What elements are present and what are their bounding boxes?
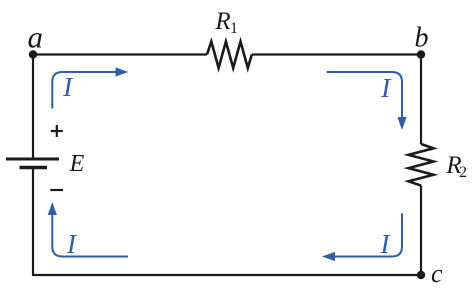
- svg-text:R: R: [214, 8, 230, 35]
- battery E long plate: [6, 158, 59, 161]
- battery minus sign: [50, 189, 63, 191]
- wire top (a to R1): [33, 53, 207, 55]
- node a dot: [29, 50, 37, 58]
- svg-text:c: c: [431, 259, 443, 288]
- wire right upper (b to R2): [420, 55, 422, 145]
- node b dot: [417, 50, 425, 58]
- wire left lower (corner to battery minus plate): [32, 168, 34, 276]
- svg-text:a: a: [28, 20, 44, 55]
- svg-text:b: b: [415, 23, 429, 54]
- current arrow top-right: [327, 72, 402, 117]
- svg-text:2: 2: [459, 164, 467, 181]
- resistor R1: [207, 42, 252, 69]
- current arrow bottom-left: [52, 215, 128, 257]
- wire bottom (c to lower-left corner): [32, 274, 421, 276]
- wire right lower (R2 to c): [420, 186, 422, 276]
- wire left upper (battery plus plate to a): [32, 55, 34, 160]
- current arrow top-left: [52, 72, 116, 109]
- wire top (R1 to b): [252, 53, 421, 55]
- battery plus sign: [51, 125, 63, 137]
- node c dot: [417, 271, 425, 279]
- current arrow bottom-right: [335, 213, 402, 256]
- resistor R2: [409, 144, 434, 186]
- svg-text:E: E: [69, 151, 85, 177]
- svg-text:1: 1: [230, 20, 238, 37]
- battery E short plate: [20, 166, 48, 169]
